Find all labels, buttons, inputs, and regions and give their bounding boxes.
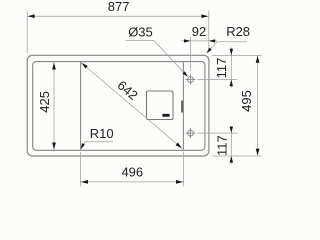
svg-text:117: 117 (214, 58, 229, 79)
svg-text:425: 425 (37, 91, 52, 113)
svg-text:R10: R10 (90, 126, 114, 141)
svg-text:92: 92 (192, 24, 206, 39)
svg-text:Ø35: Ø35 (128, 25, 153, 40)
svg-text:117: 117 (214, 135, 229, 156)
svg-text:R28: R28 (226, 24, 250, 39)
svg-text:496: 496 (121, 165, 143, 180)
svg-text:495: 495 (239, 90, 254, 112)
svg-text:642: 642 (115, 78, 141, 103)
svg-text:877: 877 (108, 0, 130, 14)
